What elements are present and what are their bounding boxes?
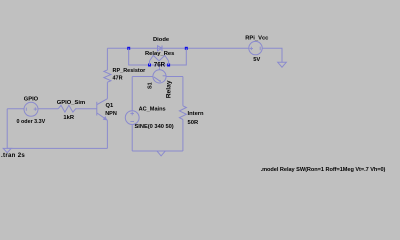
svg-text:1kR: 1kR — [63, 115, 74, 121]
junction node B right — [185, 47, 188, 50]
wire switch right — [166, 76, 183, 78]
svg-text:.model Relay SW(Ron=1 Roff=1Me: .model Relay SW(Ron=1 Roff=1Meg Vt=.7 Vh… — [261, 167, 386, 173]
voltage source V3 RPi_Vcc — [249, 41, 262, 54]
transistor Q1 NPN — [97, 99, 108, 121]
wire coil bottom rail — [150, 64, 169, 66]
svg-text:76R: 76R — [154, 62, 166, 69]
svg-text:AC_Mains: AC_Mains — [139, 107, 166, 113]
wire left riser of coil — [129, 48, 150, 65]
svg-text:.tran 2s: .tran 2s — [1, 152, 25, 159]
wire emitter down — [106, 120, 108, 148]
svg-text:SINE(0 340 50): SINE(0 340 50) — [135, 124, 174, 130]
junction node D — [167, 64, 170, 67]
wire bottom rail — [7, 147, 107, 149]
svg-text:50R: 50R — [188, 120, 199, 126]
svg-text:GPIO_Sim: GPIO_Sim — [57, 100, 85, 106]
wire left down rail — [6, 109, 8, 149]
ground flag Vcc — [278, 62, 287, 67]
resistor R3 Relay_Res 76R — [150, 55, 169, 65]
junction node C — [148, 64, 151, 67]
resistor R2 GPIO_Sim 1kR — [58, 105, 77, 112]
wire right riser of coil — [169, 48, 187, 65]
wire top rail Vcc — [107, 47, 249, 49]
diode D1 — [158, 46, 163, 52]
resistor R1 RP_Resistor 47R — [104, 70, 111, 82]
svg-text:Q1: Q1 — [106, 103, 115, 109]
wire AC loop left upper — [131, 77, 133, 111]
svg-text:Relay_Res: Relay_Res — [145, 51, 174, 57]
ground flag AC — [157, 151, 165, 156]
wire base — [77, 108, 97, 110]
junction node A left — [127, 47, 130, 50]
svg-text:Relay: Relay — [166, 80, 173, 98]
wire collector riser upper — [106, 48, 108, 70]
svg-text:5V: 5V — [253, 57, 260, 63]
voltage source V2 AC_Mains — [125, 111, 139, 125]
wire GPIO left — [7, 108, 24, 110]
svg-text:GPIO: GPIO — [24, 96, 39, 102]
wire AC loop left lower — [131, 125, 133, 152]
svg-text:RPi_Vcc: RPi_Vcc — [245, 36, 269, 42]
svg-text:S1: S1 — [148, 82, 154, 89]
svg-text:0 oder 3.3V: 0 oder 3.3V — [17, 119, 46, 125]
wire RPi_Vcc right to ground corner — [262, 48, 282, 62]
svg-text:Diode: Diode — [153, 37, 170, 43]
wire switch control stem — [159, 65, 161, 70]
svg-text:RP_Resistor: RP_Resistor — [113, 68, 147, 74]
svg-text:Intern: Intern — [188, 111, 205, 117]
wire GPIO to resistor — [38, 108, 58, 110]
wire AC loop bottom — [132, 150, 183, 152]
wire collector riser lower — [106, 82, 108, 99]
wire AC loop right lower — [182, 120, 184, 152]
ground flag left — [3, 148, 11, 152]
wire switch left — [132, 76, 153, 78]
resistor R4 Intern 50R — [179, 106, 186, 120]
voltage source V1 GPIO — [24, 102, 38, 116]
svg-text:NPN: NPN — [105, 111, 117, 117]
wire AC loop right upper — [182, 77, 184, 106]
switch S1 Relay — [153, 70, 166, 83]
svg-text:47R: 47R — [113, 76, 123, 82]
